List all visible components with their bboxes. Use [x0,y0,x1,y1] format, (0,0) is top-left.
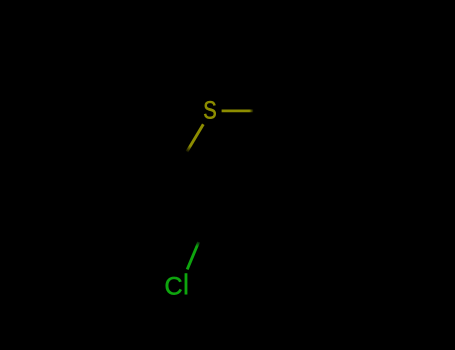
bond C-Cl, diagonal wire, chlorine-colored half [187,242,199,269]
bond S-C(phenyl), horizontal wire, sulfur-colored half [222,110,254,113]
bond S-CH2, diagonal wire, sulfur-colored half [187,124,203,151]
atom Cl label: C glyph [166,277,182,295]
atom Cl label: l glyph [185,273,188,294]
atom S label [204,101,216,119]
